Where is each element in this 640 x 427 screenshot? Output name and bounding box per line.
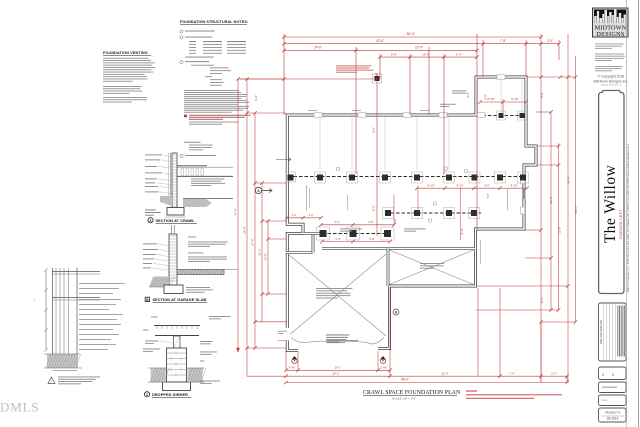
girder C dashed	[322, 233, 390, 235]
interior leader arrow top-left	[276, 158, 291, 162]
right stack tick horizontals	[527, 76, 576, 78]
crawl section labels right	[191, 178, 224, 181]
garage slab X	[288, 254, 386, 336]
porch post top	[373, 74, 382, 83]
svg-text:GARAGE LEFT: GARAGE LEFT	[619, 209, 623, 239]
svg-text:PROJECT #: PROJECT #	[605, 411, 621, 415]
red note porch text	[336, 65, 371, 68]
svg-text:21'-0": 21'-0"	[258, 248, 262, 256]
section at crawl detail	[172, 153, 177, 208]
garage slab footing	[164, 285, 183, 294]
bump top vent	[497, 75, 505, 79]
garage slab text	[316, 287, 352, 290]
long paragraph	[184, 89, 239, 92]
girder A dashed	[288, 176, 524, 178]
red dim line y188	[417, 187, 527, 189]
garage dim girder C	[322, 241, 390, 243]
dropped girder footing	[163, 382, 191, 391]
svg-text:2'-4½": 2'-4½"	[288, 366, 295, 370]
section at garage slab detail	[169, 234, 177, 285]
red vertical through plan x377	[376, 73, 378, 236]
girder A wall pier	[287, 172, 296, 182]
garage slab earth hatch	[149, 277, 169, 288]
section cut marker A	[255, 187, 261, 193]
venting paragraph 3	[103, 96, 147, 99]
svg-text:5'-8": 5'-8"	[391, 52, 397, 56]
svg-text:5'-4": 5'-4"	[334, 220, 339, 224]
svg-text:9'-0": 9'-0"	[540, 297, 544, 303]
svg-text:DATE REV DATE REV: DATE REV DATE REV	[600, 319, 603, 344]
patio slab X	[390, 250, 474, 285]
svg-text:7'-8": 7'-8"	[500, 39, 506, 43]
plan outline walls	[287, 77, 536, 351]
svg-text:2'-0": 2'-0"	[547, 39, 553, 43]
bottom dim line 3	[286, 382, 567, 384]
svg-text:DROPPED GIRDER: DROPPED GIRDER	[152, 393, 188, 397]
section at crawl label	[148, 218, 153, 223]
sheet box 1	[599, 367, 627, 380]
svg-text:56'-0": 56'-0"	[401, 378, 409, 382]
svg-text:7'-4": 7'-4"	[509, 371, 515, 375]
svg-text:DESIGNS: DESIGNS	[596, 31, 624, 38]
the willow panel	[599, 97, 624, 294]
crawl vents top wall	[314, 113, 322, 117]
svg-text:MidTown Designs Inc. 5306 Six: MidTown Designs Inc. 5306 Six Forks Rd. …	[626, 143, 630, 292]
project number box	[599, 408, 627, 422]
garage apron curve	[291, 338, 384, 344]
crawl footing	[167, 208, 184, 216]
note 5	[180, 154, 183, 157]
dim top line 3	[284, 49, 477, 51]
svg-text:MidTown Designs Inc.: MidTown Designs Inc.	[594, 80, 629, 84]
note 3	[180, 60, 183, 63]
svg-text:SCALE 1/4" = 1'-0": SCALE 1/4" = 1'-0"	[392, 396, 417, 400]
svg-text:14'-8": 14'-8"	[264, 253, 268, 261]
girder row2 dashed	[385, 212, 481, 214]
svg-text:21'-0": 21'-0"	[549, 196, 553, 204]
svg-text:38'-0": 38'-0"	[243, 226, 247, 234]
svg-text:SECTION AT GARAGE SLAB: SECTION AT GARAGE SLAB	[153, 298, 207, 302]
sheet right edge	[638, 0, 640, 427]
section at garage slab label	[145, 297, 149, 301]
crawl section labels left	[145, 154, 162, 157]
dim bump interior line	[480, 101, 526, 103]
svg-text:22'-0": 22'-0"	[415, 46, 423, 50]
piers girder row2	[383, 208, 394, 219]
svg-text:16'-1": 16'-1"	[335, 366, 342, 370]
abbreviations note	[184, 141, 201, 144]
girder B dashed	[477, 115, 525, 117]
svg-text:12'-8": 12'-8"	[557, 226, 561, 234]
svg-text:8'-10": 8'-10"	[457, 183, 464, 187]
bump interior text	[452, 90, 466, 93]
revision table	[599, 303, 627, 361]
svg-text:8'-10": 8'-10"	[511, 183, 518, 187]
svg-text:9'-8": 9'-8"	[466, 92, 470, 98]
garage door text	[326, 334, 349, 337]
svg-text:8'-10": 8'-10"	[460, 228, 464, 235]
red note inline	[184, 115, 187, 118]
svg-text:2'-4½": 2'-4½"	[380, 366, 387, 370]
dropped girder labels	[151, 316, 158, 319]
garage dim labels upper	[287, 217, 321, 219]
svg-text:22'-2": 22'-2"	[441, 371, 448, 375]
svg-text:DMLS: DMLS	[0, 400, 39, 415]
svg-text:26'-2": 26'-2"	[332, 371, 339, 375]
dim top line 4	[380, 56, 477, 58]
bottom dim line 2	[286, 375, 567, 377]
venting paragraph 1	[103, 57, 149, 60]
svg-text:24'-6": 24'-6"	[314, 46, 322, 50]
svg-text:8'-10": 8'-10"	[428, 183, 435, 187]
dropped girder detail	[154, 325, 200, 327]
svg-text:4'-0": 4'-0"	[291, 213, 296, 217]
piers girder C	[317, 227, 330, 240]
dropped girder earth hatch	[151, 368, 166, 382]
dim top line 1	[284, 36, 541, 38]
porch pier markers	[292, 358, 297, 363]
left dim stack	[237, 79, 239, 352]
L.BRG labels top wall	[308, 109, 317, 112]
interior rotated texts	[305, 185, 308, 211]
red extension verticals top	[283, 34, 285, 115]
note block bell footer	[191, 64, 214, 67]
garage slab labels left	[143, 243, 157, 246]
svg-text:8'-0": 8'-0"	[540, 92, 544, 98]
svg-text:8'-0": 8'-0"	[484, 183, 489, 187]
garage slab labels right	[188, 236, 196, 239]
svg-text:9'-10": 9'-10"	[511, 97, 518, 101]
address strip line	[625, 0, 627, 427]
svg-text:4'-4": 4'-4"	[335, 237, 340, 241]
garage slab hatch	[177, 270, 224, 275]
note 1	[180, 30, 183, 33]
svg-text:5'-4": 5'-4"	[456, 52, 462, 56]
tall wall section note	[48, 377, 55, 384]
svg-text:38'-0": 38'-0"	[574, 206, 578, 214]
bottom dim line garage	[286, 369, 390, 371]
left wall door opening	[285, 328, 291, 340]
svg-text:2'-0": 2'-0"	[551, 371, 557, 375]
garage slope text	[327, 339, 358, 342]
svg-text:6'-8": 6'-8"	[369, 237, 374, 241]
midtown designs logo	[593, 8, 629, 37]
right wall vents	[521, 177, 525, 184]
right dim stack	[540, 34, 542, 383]
red plan note	[466, 391, 477, 392]
svg-text:FOUNDATION VENTING: FOUNDATION VENTING	[103, 51, 148, 55]
red verticals row2	[393, 195, 395, 225]
svg-text:3'-0": 3'-0"	[486, 193, 490, 199]
svg-text:8'-8": 8'-8"	[372, 205, 376, 211]
svg-text:© Copyright 2018: © Copyright 2018	[598, 75, 625, 79]
tall wall section detail	[52, 268, 54, 368]
svg-text:5'-8": 5'-8"	[368, 220, 373, 224]
bottom red verticals	[297, 351, 299, 370]
svg-text:27'-8": 27'-8"	[251, 238, 255, 246]
svg-text:FOUNDATION STRUCTURAL NOTES:: FOUNDATION STRUCTURAL NOTES:	[180, 20, 248, 24]
masonry size table	[189, 40, 196, 43]
svg-text:SECTION AT CRAWL: SECTION AT CRAWL	[156, 219, 196, 223]
joist grid lines	[319, 117, 321, 170]
garage interior walls	[322, 247, 475, 250]
piers girder B	[497, 111, 506, 120]
svg-text:26-2014: 26-2014	[607, 417, 619, 421]
sheet box 2	[599, 382, 627, 393]
svg-text:42'-8": 42'-8"	[376, 39, 384, 43]
svg-text:The Willow: The Willow	[602, 164, 619, 243]
section cut marker B	[393, 309, 399, 315]
right wall hatch segment	[523, 188, 526, 199]
patio text	[420, 262, 444, 265]
dropped girder label	[144, 392, 149, 397]
note 2	[180, 36, 183, 39]
svg-text:4'-0": 4'-0"	[308, 213, 313, 217]
svg-text:9'-8": 9'-8"	[254, 95, 258, 101]
svg-text:56'-0": 56'-0"	[407, 32, 416, 36]
svg-text:10'-6": 10'-6"	[422, 52, 430, 56]
tall wall section labels	[79, 282, 125, 285]
dim top line 2	[284, 43, 559, 45]
svg-text:37'-4": 37'-4"	[234, 208, 238, 216]
sheet box 3	[599, 395, 627, 406]
piers girder A	[315, 172, 326, 183]
svg-text:(A Daly Owned Co.): (A Daly Owned Co.)	[601, 84, 621, 87]
red vertical x477 inside bump	[476, 80, 478, 230]
rotated gray text x348	[346, 195, 349, 210]
dropped girder pier	[167, 348, 187, 382]
dim porch line	[240, 78, 377, 80]
svg-text:34'-0": 34'-0"	[567, 176, 571, 184]
left stack tick horizontals	[238, 78, 284, 80]
svg-text:8'-10": 8'-10"	[487, 97, 494, 101]
pier id circles	[336, 167, 340, 171]
gray note left of bump	[440, 103, 456, 106]
svg-text:8'-8": 8'-8"	[484, 94, 488, 100]
title block texts	[595, 43, 624, 46]
venting paragraph 2	[103, 85, 142, 88]
svg-text:CRAWL SPACE FOUNDATION PLAN: CRAWL SPACE FOUNDATION PLAN	[363, 390, 461, 396]
tall wall section hatch	[47, 354, 78, 368]
svg-text:9'-8": 9'-8"	[372, 127, 376, 133]
svg-text:4'-0": 4'-0"	[394, 218, 398, 223]
